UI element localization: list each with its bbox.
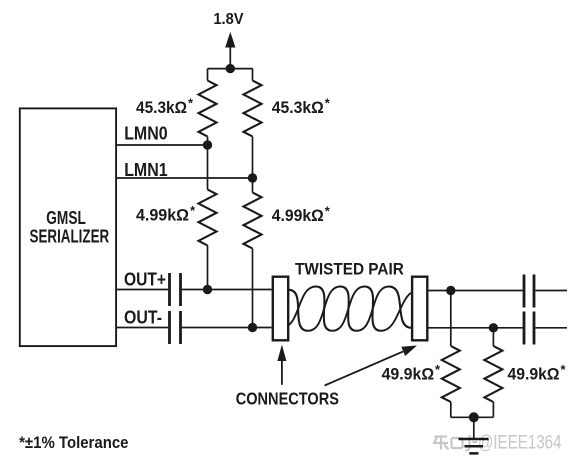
arrow connector pointer 2 diagonal (325, 351, 404, 385)
svg-text:49.9kΩ: 49.9kΩ (382, 365, 435, 384)
wire 1.8V arrow shaft (229, 44, 231, 69)
junction node OUT+ left (203, 285, 212, 294)
wire ground stub (473, 417, 475, 438)
junction node ground rail (469, 412, 479, 422)
svg-text:LMN0: LMN0 (124, 124, 167, 144)
arrow shaft connector pointer 1 (281, 359, 283, 385)
junction node 1.8V rail (226, 64, 235, 73)
svg-text:OUT-: OUT- (124, 308, 162, 328)
wire R6 bottom (492, 402, 494, 417)
wire R3 bottom to OUT+ (207, 246, 209, 290)
svg-text:4.99kΩ: 4.99kΩ (272, 206, 324, 225)
svg-text:45.3kΩ: 45.3kΩ (272, 98, 324, 117)
resistor R4 4.99k right (244, 193, 262, 249)
wire R2 bottom to LMN1 (252, 137, 254, 179)
arrowhead 1.8V (225, 32, 235, 48)
svg-text:TWISTED PAIR: TWISTED PAIR (295, 259, 404, 278)
junction node OUT- right (489, 323, 498, 332)
wire OUT- right: J2 to C4 (429, 327, 523, 329)
junction node LMN1 (248, 173, 257, 182)
capacitor C4 plates (524, 312, 534, 345)
capacitor C1 plates (170, 273, 181, 306)
junction node OUT+ right (446, 286, 455, 295)
wire OUT- right of C4 (536, 327, 568, 329)
svg-text:*: * (325, 204, 331, 219)
junction node LMN0 (203, 140, 212, 149)
wire left column LMN0 to R3 (207, 145, 209, 190)
svg-text:CONNECTORS: CONNECTORS (236, 389, 339, 409)
wire left column stub top (207, 69, 209, 81)
twisted pair wire B (281, 287, 419, 331)
svg-text:49.9kΩ: 49.9kΩ (508, 365, 560, 384)
wire OUT+ right of C3 (536, 290, 568, 292)
svg-text:1.8V: 1.8V (213, 11, 244, 28)
wire down from OUT+ to R5 (450, 291, 452, 347)
wire OUT- C2 to connector J1 (182, 327, 272, 329)
svg-text:GMSL: GMSL (46, 208, 86, 228)
svg-text:4.99kΩ: 4.99kΩ (136, 206, 189, 225)
resistor R1 45.3k left (199, 81, 217, 137)
svg-text:*±1% Tolerance: *±1% Tolerance (19, 433, 128, 452)
arrowhead connector pointer 2 (401, 346, 417, 357)
resistor R2 45.3k right (244, 81, 262, 137)
wire right column LMN1 to R4 (252, 178, 254, 193)
box U1 GMSL serializer (20, 108, 116, 346)
resistor R6 49.9k right (484, 346, 502, 402)
wire OUT+ from box to C1 (117, 289, 168, 291)
svg-text:OUT+: OUT+ (124, 270, 166, 290)
resistor R3 4.99k left (199, 190, 217, 246)
ground bars (459, 439, 489, 453)
wire OUT+ right: J2 to C3 (429, 290, 523, 292)
wire down from OUT- to R6 (492, 328, 494, 346)
wire top rail 1.8V (208, 68, 253, 70)
svg-text:45.3kΩ: 45.3kΩ (136, 98, 187, 117)
wire bottom rail (451, 416, 494, 418)
svg-text:*: * (188, 96, 194, 111)
wire R5 bottom (450, 402, 452, 417)
resistor R5 49.9k left (442, 346, 460, 402)
svg-text:*: * (435, 362, 441, 377)
twisted pair wire A (281, 287, 419, 331)
wire R4 bottom to OUT- (252, 249, 254, 328)
svg-text:@IEEE1364: @IEEE1364 (478, 433, 562, 454)
wire R1 bottom stub (207, 137, 209, 146)
wire OUT- from box to C2 (117, 327, 168, 329)
svg-text:*: * (561, 362, 567, 377)
connector J2 (412, 277, 427, 341)
wire right column stub top (252, 69, 254, 81)
svg-text:*: * (325, 96, 331, 111)
watermark zhihu glyphs (434, 435, 478, 451)
connector J1 (273, 277, 288, 341)
wire OUT+ C1 to connector J1 (182, 289, 272, 291)
capacitor C3 plates (524, 275, 534, 308)
wire LMN0 (117, 144, 208, 146)
arrowhead connector pointer 1 (277, 345, 286, 362)
capacitor C2 plates (170, 311, 181, 344)
svg-text:SERIALIZER: SERIALIZER (30, 226, 110, 246)
svg-text:*: * (190, 203, 196, 218)
junction node OUT- left (248, 323, 257, 332)
svg-text:LMN1: LMN1 (124, 160, 167, 180)
wire LMN1 (117, 177, 253, 179)
